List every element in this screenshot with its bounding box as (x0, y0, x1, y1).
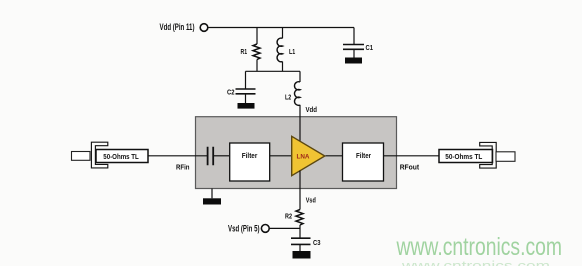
wire RFin signal into box (148, 155, 208, 157)
wire R1 bottom lead (256, 60, 258, 72)
amplifier block (gray box) (196, 117, 397, 189)
svg-text:www.cntronics.com: www.cntronics.com (396, 234, 562, 261)
svg-text:C2: C2 (227, 88, 235, 97)
wire bias rail (246, 70, 301, 72)
svg-text:Vsd: Vsd (306, 195, 316, 204)
svg-text:Vsd (Pin 5): Vsd (Pin 5) (228, 224, 260, 234)
capacitor C3 (291, 238, 321, 251)
svg-text:50-Ohms TL: 50-Ohms TL (103, 152, 139, 161)
wire Pin5 to junction (269, 227, 300, 229)
resistor R1 (241, 44, 261, 60)
wire filter1 to LNA (270, 155, 292, 157)
svg-text:LNA: LNA (297, 154, 310, 161)
wire C1 lead (353, 28, 355, 45)
wire LNA to filter2 (326, 155, 343, 157)
capacitor (DC block, input) (208, 147, 214, 165)
svg-text:Filter: Filter (242, 151, 258, 160)
svg-text:R1: R1 (241, 47, 248, 56)
filter block 1 (230, 143, 270, 181)
ground C2 (238, 103, 255, 109)
wire top rail (208, 27, 354, 29)
filter block 2 (343, 143, 384, 181)
wire R1 top lead (256, 28, 258, 45)
svg-text:L2: L2 (285, 93, 291, 102)
resistor R2 (285, 210, 303, 226)
wire Vsd feed below box (299, 171, 301, 210)
50-Ohms TL block (input) (72, 142, 149, 168)
inductor L2 (285, 82, 300, 106)
wire C2 lead (245, 71, 247, 89)
wire L2 top lead (299, 71, 301, 82)
wire Vdd feed into box (299, 105, 301, 142)
svg-text:Filter: Filter (356, 151, 371, 160)
svg-text:C1: C1 (366, 43, 374, 52)
svg-text:RFout: RFout (400, 163, 420, 172)
inductor L1 (277, 38, 295, 62)
svg-text:RFin: RFin (176, 163, 190, 172)
svg-text:www.cntronics.com: www.cntronics.com (401, 258, 550, 266)
wire R2 to junction (299, 225, 301, 238)
node Vdd (Pin 11) (160, 22, 208, 32)
svg-text:C3: C3 (313, 238, 321, 247)
svg-text:R2: R2 (285, 212, 292, 221)
wire L1 top lead (282, 28, 284, 39)
node Vsd (Pin 5) (228, 224, 269, 234)
op-amp U1 LNA (292, 136, 325, 175)
svg-text:Vdd: Vdd (306, 105, 318, 114)
wire cap to filter1 (214, 155, 229, 157)
wire L1 bottom lead (282, 62, 284, 72)
ground C1 (345, 58, 362, 64)
svg-text:L1: L1 (289, 47, 295, 56)
svg-text:50-Ohms TL: 50-Ohms TL (445, 152, 483, 161)
wire box ground lead (211, 189, 213, 199)
svg-text:Vdd (Pin 11): Vdd (Pin 11) (160, 22, 195, 32)
ground (box) (203, 198, 221, 204)
capacitor C2 (227, 88, 256, 104)
ground C3 (293, 251, 311, 259)
50-Ohms TL block (output) (439, 142, 515, 168)
capacitor C1 (343, 43, 373, 58)
wire RFout out of box (384, 155, 440, 157)
